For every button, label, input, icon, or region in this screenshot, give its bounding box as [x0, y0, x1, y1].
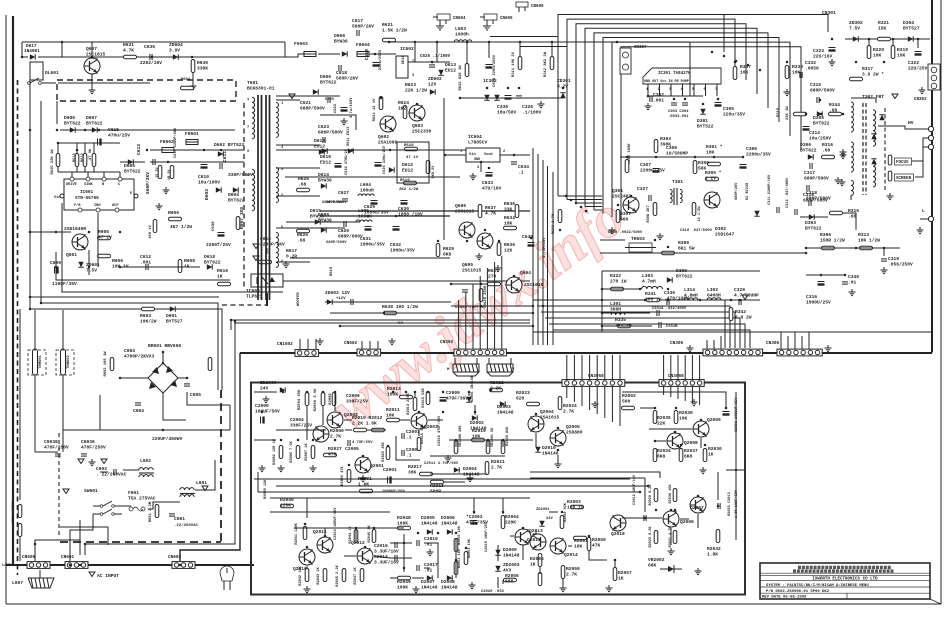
label C601 value: [174, 523, 199, 528]
wire cn3058 pin 7 down: [611, 387, 613, 422]
connector CN306: [766, 341, 822, 356]
resistor R612: [83, 154, 87, 167]
capacitor C636: [150, 54, 152, 60]
label C627: [338, 190, 349, 196]
wire board bus 1: [254, 439, 276, 441]
watermark www.jdwx.info: [320, 184, 636, 441]
chassis ground C616: [253, 244, 259, 249]
label C319: [888, 256, 913, 267]
label R2028: [649, 484, 653, 506]
wire rail 150 long: [276, 149, 470, 151]
svg-text:.60: .60: [848, 213, 857, 219]
capacitor C2014b: [395, 555, 397, 561]
svg-text:C613: C613: [136, 144, 142, 155]
resistor R344: [829, 112, 842, 116]
ground CN602: [389, 338, 396, 345]
junction dots buses: [532, 51, 762, 328]
wire res bus: [58, 171, 120, 173]
wire zd603 row: [325, 301, 451, 303]
resistor R626: [297, 188, 310, 192]
svg-text:D602 BYT522: D602 BYT522: [214, 142, 245, 148]
capacitor C331A: [657, 310, 659, 316]
label C617: [352, 18, 374, 29]
svg-text:C2011 4.7UF/50V: C2011 4.7UF/50V: [424, 461, 459, 466]
IC602 pin text: [402, 56, 414, 78]
label R629: [443, 246, 454, 257]
resistor R2026: [347, 470, 351, 483]
svg-text:D601: D601: [166, 313, 177, 319]
resistor R2002r: [622, 406, 635, 410]
diode D613: [438, 70, 443, 75]
bus wire to CN301: [724, 15, 828, 33]
diode D614: [321, 183, 326, 188]
svg-text:1 2V: 1 2V: [705, 175, 716, 181]
svg-text:EU12: EU12: [402, 167, 413, 173]
ground CN605: [483, 24, 491, 30]
svg-text:R303: R303: [660, 136, 671, 142]
label R2003r: [567, 499, 584, 510]
resistor R625: [297, 229, 310, 233]
label C609 value: [52, 281, 77, 287]
svg-text:1.5K 1/2W: 1.5K 1/2W: [382, 27, 407, 33]
svg-text:D609: D609: [320, 74, 331, 80]
svg-text:R2064: R2064: [505, 514, 519, 520]
label C336: [497, 104, 517, 115]
svg-text:10K: 10K: [679, 415, 688, 421]
resistor R2047: [360, 569, 364, 582]
svg-text:R2027: R2027: [328, 446, 342, 452]
label R609 value: [170, 224, 192, 230]
bus wire vertical 3: [542, 160, 544, 345]
fuse F8604: [357, 52, 369, 57]
wire q row: [345, 429, 352, 431]
resistor R604b: [18, 524, 22, 537]
label C329: [734, 287, 759, 298]
svg-text:R2059: R2059: [566, 566, 580, 572]
wire cn3058 pin 4 up: [589, 355, 591, 380]
resistor R315: [830, 211, 843, 215]
label L302: [707, 287, 721, 298]
label C619 value: [378, 49, 383, 70]
label ZD601: [86, 262, 100, 273]
diode D604: [233, 187, 238, 192]
capacitor C633: [486, 173, 493, 177]
label C633: [482, 180, 502, 191]
label R2059: [566, 566, 580, 577]
resistor R2053: [464, 552, 468, 565]
svg-text:1N4148: 1N4148: [542, 450, 559, 456]
svg-text:C2001: C2001: [383, 467, 397, 473]
svg-text:1000u/35V: 1000u/35V: [360, 241, 385, 247]
wire rh bus 2: [530, 477, 645, 479]
wire q607 collector up: [91, 42, 93, 58]
ground cn3068: [691, 399, 698, 406]
bus wire fan 4: [585, 28, 757, 206]
svg-text:1.8K: 1.8K: [707, 551, 718, 557]
svg-text:CN3058: CN3058: [588, 374, 604, 379]
wire 253 rail: [600, 252, 806, 254]
svg-text:Q604: Q604: [520, 270, 531, 276]
svg-text:1U/50UHP: 1U/50UHP: [666, 150, 688, 156]
dashed vertical AC area: [58, 433, 60, 535]
label L303: [642, 273, 656, 284]
capacitor C612: [146, 264, 148, 270]
chassis gnd T601 area: [289, 94, 295, 99]
svg-text:FOCUS: FOCUS: [896, 161, 909, 165]
label R603: [140, 313, 157, 324]
label L terminal: [922, 209, 925, 214]
wire v437: [436, 42, 438, 62]
wire board bus 3: [258, 472, 640, 492]
svg-text:9: 9: [247, 150, 249, 154]
svg-text:680P/500V: 680P/500V: [810, 87, 835, 93]
wire lb l13: [355, 528, 357, 543]
svg-text:R617: R617: [286, 248, 297, 254]
resistor R601: [155, 505, 159, 518]
label R2042: [299, 565, 303, 585]
svg-text:L601: L601: [196, 480, 207, 486]
svg-text:R2046 1K: R2046 1K: [368, 525, 372, 543]
wire rh v1: [644, 478, 646, 512]
label R2014: [407, 393, 411, 415]
label R321: [878, 20, 889, 31]
diode FBT hv2: [871, 134, 876, 139]
svg-text:ZD302: ZD302: [849, 20, 863, 26]
label C315: [810, 82, 835, 93]
label R619 value: [399, 187, 419, 192]
label R2046: [368, 525, 372, 543]
diode D2005: [427, 529, 432, 534]
transistor Q602: [380, 116, 396, 132]
label 4.7UF vertical: [542, 237, 547, 258]
labels R611 R612: [156, 166, 172, 180]
svg-text:360H: 360H: [610, 306, 621, 312]
label R341: [645, 291, 662, 302]
wire bridge left: [121, 377, 148, 379]
svg-text:330F/25V: 330F/25V: [290, 422, 312, 428]
label C623: [318, 124, 343, 135]
T302 core dash: [862, 103, 864, 195]
svg-text:R2011: R2011: [386, 407, 400, 413]
label Q2004r: [540, 409, 560, 420]
svg-text:R2037: R2037: [684, 448, 698, 454]
svg-text:680: 680: [505, 578, 514, 584]
capacitor C604: [135, 403, 141, 405]
svg-text:110UF/35V: 110UF/35V: [52, 281, 77, 287]
svg-text:L604: L604: [360, 182, 371, 188]
wire lb u5: [414, 392, 416, 397]
wire ZD302 stub a: [868, 39, 870, 47]
label R2020: [506, 426, 510, 446]
capacitor C2007: [402, 433, 404, 439]
label +5V: [396, 322, 404, 326]
svg-text:BYT622: BYT622: [228, 197, 245, 203]
wire T601 tap4: [276, 195, 320, 197]
svg-text:3: 3: [412, 74, 414, 78]
label L601: [196, 480, 207, 486]
label Q2002: [344, 412, 358, 418]
svg-text:R2003: R2003: [567, 499, 581, 505]
wire y320 rail: [231, 319, 530, 321]
wire lb r2: [655, 440, 666, 442]
bus wire vertical 4: [547, 166, 549, 345]
wire rail 211: [320, 210, 530, 212]
label D614: [318, 172, 332, 183]
wire yoke h3: [602, 312, 650, 314]
label R2064: [505, 514, 519, 525]
wire res 58 bot: [57, 167, 59, 172]
svg-text:C327: C327: [637, 186, 648, 192]
wire lb r13: [614, 560, 616, 567]
bridge rectifier BR601: [148, 363, 178, 393]
svg-text:.1: .1: [406, 434, 412, 440]
wire cn3058 pin 5 up: [596, 355, 598, 380]
T302 primary winding b: [851, 142, 854, 172]
posistor TRM601: [33, 349, 38, 375]
label C604a: [124, 348, 155, 359]
wire ac v3: [99, 395, 101, 430]
transistor Q301: [623, 197, 639, 213]
label D2002: [470, 420, 487, 431]
svg-text:C601: C601: [174, 516, 185, 522]
svg-text:.001: .001: [140, 259, 151, 265]
svg-text:10u/250V: 10u/250V: [809, 135, 831, 141]
label R311: [512, 51, 516, 77]
label R2024: [563, 403, 577, 414]
wire lb r8: [557, 455, 559, 461]
svg-text:L301: L301: [610, 301, 621, 307]
svg-text:R2002 12R 1W: R2002 12R 1W: [273, 438, 277, 465]
L602 core: [139, 472, 154, 474]
svg-text:R627: R627: [488, 268, 499, 274]
label R2009: [329, 393, 333, 405]
svg-text:BYT622: BYT622: [204, 259, 221, 265]
capacitor C605: [184, 384, 190, 386]
capacitor C617: [357, 30, 359, 36]
label Q2005r: [566, 424, 583, 435]
label C2017: [424, 562, 438, 573]
svg-text:R309: R309: [678, 240, 689, 246]
label R2016: [421, 426, 425, 444]
wire res 94 bot: [93, 167, 95, 172]
svg-text:BR601 RBV606: BR601 RBV606: [148, 343, 181, 349]
label R2032: [707, 546, 721, 557]
capacitor C318f: [807, 185, 809, 191]
wire bridge bottom: [163, 393, 186, 420]
svg-text:R636: R636: [504, 201, 515, 207]
capacitor C603B: [55, 454, 61, 456]
svg-text:100uH: 100uH: [358, 213, 372, 219]
capacitor C610: [201, 165, 208, 169]
resistor R2019: [472, 438, 485, 442]
svg-text:.01: .01: [848, 279, 857, 285]
svg-text:BYT522: BYT522: [697, 123, 714, 129]
svg-text:2SD880: 2SD880: [566, 429, 583, 435]
pot VR2000: [454, 441, 458, 454]
bus wire fan 7: [612, 42, 790, 217]
svg-text:BYT527: BYT527: [903, 25, 920, 31]
label C605: [190, 392, 201, 398]
svg-text:4.8mH: 4.8mH: [684, 292, 698, 298]
mains plug: [220, 566, 234, 590]
diode ZD602: [430, 89, 435, 94]
label R2035: [657, 415, 671, 426]
svg-text:680P/500V: 680P/500V: [804, 175, 829, 181]
diode in IC302 b: [494, 95, 499, 100]
capacitor C626: [375, 163, 382, 167]
T302 secondary winding: [873, 110, 876, 146]
label WOOFER vertical: [297, 292, 301, 306]
connector CN303: [914, 64, 940, 102]
wire IC301 pin row: [648, 95, 703, 97]
label R624: [398, 100, 409, 111]
svg-text:560P/2KV: 560P/2KV: [336, 75, 358, 81]
transistor Q606: [459, 222, 475, 238]
label R317: [862, 66, 884, 77]
svg-text:C623: C623: [318, 124, 329, 130]
wire d606 row: [60, 129, 235, 131]
svg-text:R624: R624: [398, 100, 409, 106]
svg-text:680P/500V: 680P/500V: [322, 200, 343, 205]
junction dots midtop: [339, 41, 619, 328]
wire cn3068 pin 6 up: [699, 355, 701, 380]
resistor R606: [98, 254, 111, 258]
capacitor C615: [98, 139, 102, 146]
wire trm601 down: [34, 375, 36, 452]
wire board bus 2: [270, 497, 530, 499]
svg-text:22K 1W: 22K 1W: [786, 106, 790, 120]
label R2030: [708, 446, 722, 457]
svg-text:R605: R605: [98, 229, 109, 235]
svg-text:1: 1: [247, 98, 249, 102]
svg-text:C305: C305: [723, 106, 734, 112]
label R615: [51, 149, 55, 175]
label ZD2003: [503, 562, 520, 573]
svg-text:R2065: R2065: [530, 556, 544, 562]
svg-text:2.7K: 2.7K: [563, 408, 574, 414]
label Q605: [462, 262, 482, 273]
wire lb l3: [390, 542, 412, 544]
wire T601 tap2: [276, 144, 320, 146]
label C620: [338, 228, 363, 239]
label D610b: [320, 154, 331, 165]
svg-text:L7805CV: L7805CV: [468, 139, 488, 145]
label C604: [133, 408, 144, 414]
label C611 value: [228, 172, 253, 178]
svg-text:R317: R317: [862, 66, 873, 72]
lower board frame: [251, 383, 745, 595]
capacitor C639: [528, 243, 535, 247]
wire cn3068 pin 3 down: [677, 387, 679, 399]
svg-text:C336: C336: [497, 104, 508, 110]
svg-text:ZD301: ZD301: [557, 78, 571, 84]
svg-text:Q606: Q606: [455, 203, 466, 209]
resistor R605: [98, 236, 111, 240]
label SW601: [84, 488, 98, 494]
wire +5v row: [340, 325, 533, 327]
svg-text:6K8: 6K8: [657, 453, 666, 459]
ground q2001: [360, 475, 367, 482]
label C326: [522, 104, 542, 115]
isolation dashed vertical transformer: [243, 103, 245, 290]
T601 secondary winding 1: [276, 103, 279, 138]
bus wire to connector 6: [553, 330, 750, 348]
label C327: [637, 186, 648, 192]
wire trm601 up: [34, 310, 36, 349]
svg-text:R312 8K2 2W: R312 8K2 2W: [544, 51, 548, 77]
svg-text:GND OUT Vcc IN FB PUMP: GND OUT Vcc IN FB PUMP: [644, 80, 689, 84]
svg-text:R616: R616: [217, 268, 228, 274]
wire relay row: [38, 56, 285, 58]
IC601 top pins: [70, 177, 122, 181]
IC601 top pin labels: [66, 183, 121, 187]
svg-text:R2021: R2021: [491, 459, 505, 465]
ground L terminal: [917, 227, 924, 234]
svg-text:R606: R606: [112, 258, 123, 264]
inductor L602 a: [139, 468, 153, 470]
wire lb u3: [367, 429, 386, 431]
svg-text:D301: D301: [697, 118, 708, 124]
label L605: [358, 208, 372, 219]
svg-text:D309: D309: [676, 268, 687, 274]
wire lb u2: [344, 419, 352, 421]
label C2011: [424, 461, 459, 466]
bus wire to connector 4: [545, 318, 740, 348]
svg-text:D610: D610: [320, 154, 331, 160]
svg-text:R625: R625: [297, 232, 308, 238]
wire cn306 up 3: [794, 332, 796, 349]
svg-text:.01: .01: [424, 541, 433, 547]
svg-text:1N4148: 1N4148: [497, 409, 514, 415]
svg-text:Q2003: Q2003: [424, 424, 438, 430]
connector CN606: [22, 555, 50, 568]
op-amp IC601 STR-56769: [64, 179, 134, 210]
svg-text:47R: 47R: [328, 451, 337, 457]
label R2005: [290, 440, 294, 462]
label R2038b: [669, 484, 673, 504]
wire res 85 to bus: [84, 143, 86, 153]
label Q2008: [684, 440, 698, 446]
wire 430 rail: [63, 429, 100, 431]
capacitor C618: [339, 65, 341, 71]
resistor R621: [383, 38, 396, 42]
svg-text:47U/16V: 47U/16V: [482, 185, 502, 191]
wire feedback row: [62, 203, 283, 292]
diode ZD604: [173, 54, 178, 59]
svg-text:CN603: CN603: [168, 555, 182, 560]
svg-text:R608: R608: [184, 258, 195, 264]
label R2048: [397, 515, 411, 526]
wire cn602 pin 378: [377, 341, 379, 349]
svg-text:C2005: C2005: [345, 446, 359, 452]
wire ac trm join: [35, 451, 58, 453]
IC601 E label: [130, 192, 133, 196]
inductor L314: [684, 298, 698, 300]
svg-text:BYW36: BYW36: [318, 177, 332, 183]
svg-text:2SC2482: 2SC2482: [612, 193, 632, 199]
svg-text:C332: C332: [805, 60, 816, 66]
resistor R350: [693, 161, 697, 174]
label C2012: [632, 474, 637, 505]
label Q607: [86, 46, 106, 57]
svg-text:3: 3: [281, 168, 283, 172]
label R622: [373, 98, 377, 122]
svg-text:7.5V: 7.5V: [849, 25, 860, 31]
label R342: [735, 309, 752, 320]
svg-text:VR2000 20K: VR2000 20K: [459, 425, 463, 447]
wire fuse to trans: [148, 502, 180, 509]
label Q606: [455, 203, 475, 214]
